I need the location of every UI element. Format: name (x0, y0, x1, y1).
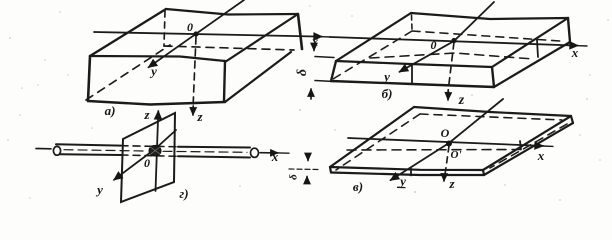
svg-text:δ: δ (295, 69, 310, 76)
svg-text:x: x (311, 34, 319, 49)
axis x (fig a) (94, 32, 322, 37)
hidden bottom left edge (dashed) (333, 31, 412, 79)
plate right side bottom edge (494, 42, 570, 87)
hidden edge back-left vertical (dashed) (164, 11, 165, 46)
svg-text:y: y (398, 174, 406, 189)
thin plate right tip (483, 170, 484, 175)
svg-text:z: z (143, 107, 150, 122)
thickness arrow down (307, 155, 309, 161)
hidden mid horizontal line (dashed) (347, 149, 520, 152)
rod right cap (251, 148, 259, 157)
front face tick (411, 64, 413, 83)
rod top edge (56, 144, 121, 145)
svg-text:y: y (95, 182, 103, 197)
axis y (fig a) (149, 0, 245, 67)
axis y (fig g) (114, 130, 176, 180)
plate front bottom edge (331, 81, 494, 87)
svg-text:x: x (271, 149, 279, 164)
axis y (fig b) (400, 2, 495, 72)
axis z (fig g) (156, 111, 159, 191)
thickness arrow up (310, 89, 312, 99)
thickness arrow up (306, 177, 308, 182)
svg-text:δ: δ (288, 174, 300, 180)
thin plate top face outline (414, 107, 571, 116)
axis x (fig v) (348, 138, 543, 146)
plate top face outline (411, 13, 568, 19)
rod left cap (53, 146, 60, 155)
hidden bottom left edge (dashed) (86, 45, 170, 100)
plate left end (331, 61, 336, 81)
svg-text:г): г) (179, 186, 188, 201)
svg-text:y: y (382, 69, 390, 84)
rod bottom edge (60, 153, 121, 156)
node O (fig a) (193, 31, 198, 36)
block right face (298, 14, 302, 49)
axis z dashed (fig b) (448, 42, 454, 92)
underline of y (fig v) (397, 186, 406, 188)
svg-text:O': O' (451, 149, 462, 161)
thin plate left tip (330, 167, 331, 173)
thin plate right vertical (571, 116, 573, 123)
plate front right vertical (492, 67, 494, 87)
svg-text:z: z (458, 93, 465, 108)
section plane (121, 113, 175, 202)
svg-text:а): а) (105, 103, 116, 118)
svg-text:в): в) (353, 179, 363, 194)
axis y (fig v) (391, 99, 504, 180)
svg-text:x: x (571, 45, 579, 60)
rod centerline dashed (64, 150, 145, 151)
plate right vertical edge (568, 18, 570, 42)
axis z dashed (fig a) (193, 37, 196, 108)
hidden bottom mid line (dashed) (370, 53, 533, 59)
thickness arrow down (313, 48, 315, 51)
hidden back-left vertical (dashed) (411, 15, 414, 30)
axis x line left segment (36, 148, 51, 150)
svg-text:y: y (149, 64, 157, 79)
hidden bottom back edge (dashed) (412, 31, 560, 41)
axis z dashed (fig v) (445, 146, 450, 178)
svg-text:z: z (196, 109, 203, 124)
axis x right segment with arrow (260, 152, 278, 154)
svg-text:0: 0 (144, 156, 150, 170)
mid-plane dashed right edge (490, 124, 567, 168)
block front face (88, 56, 90, 101)
axis x (fig b) (330, 37, 578, 46)
svg-text:0: 0 (187, 20, 193, 34)
svg-text:O: O (441, 126, 450, 140)
node O (fig b) (451, 38, 456, 43)
thin plate right bottom edge (484, 123, 573, 175)
svg-text:x: x (537, 148, 545, 163)
mid-plane dashed left edge (336, 114, 420, 170)
svg-text:0: 0 (431, 38, 437, 52)
hidden bottom back edge (dashed) (164, 46, 294, 50)
node O (fig v) (446, 141, 452, 147)
svg-text:б): б) (382, 86, 393, 101)
right face tick (fig v) (520, 141, 521, 150)
svg-text:z: z (448, 176, 455, 191)
block top face outline (166, 9, 298, 15)
mid-plane dashed back edge (420, 114, 562, 120)
thin plate front bottom edge (331, 173, 484, 176)
front face tick (410, 169, 412, 176)
rod cross-section blob at O (fig g) (149, 145, 161, 156)
right face tick (537, 40, 538, 57)
